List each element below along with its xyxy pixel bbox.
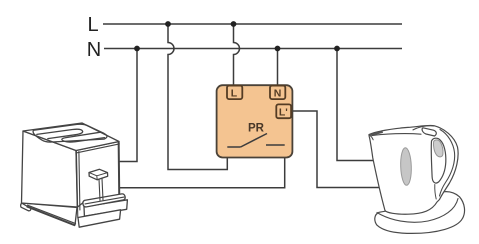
relay designator PR: [248, 123, 265, 135]
relay terminal N: [270, 86, 285, 100]
toaster base tray front edge hatch: [27, 205, 76, 225]
kettle spout beak: [369, 131, 383, 136]
toaster base band: [84, 200, 127, 216]
svg-text:PR: PR: [248, 123, 265, 135]
kettle lid top line: [413, 126, 434, 130]
kettle lid hinge cap: [422, 128, 436, 136]
svg-text:L: L: [87, 14, 98, 36]
kettle lid seam: [372, 134, 421, 136]
toaster slot divider tongue (left): [37, 129, 83, 138]
kettle handle column line: [435, 185, 436, 200]
junction dot on L bus at x=233.5: [231, 21, 237, 27]
toaster lever stem: [99, 179, 103, 201]
toaster body left face: [22, 131, 78, 207]
toaster right face rim line: [77, 144, 120, 153]
kettle base front lip: [377, 199, 458, 223]
toaster left foot: [21, 203, 31, 211]
wire: L bus to switch pivot (hops over N bus): [168, 24, 227, 170]
wire: N bus to relay terminal N: [277, 49, 279, 87]
junction dot on N bus at x=137: [134, 46, 140, 52]
toaster base bar: [83, 194, 125, 207]
wire L bus: [103, 23, 402, 25]
kettle spout underside: [369, 135, 373, 140]
junction dot on L bus at x=168: [165, 21, 171, 27]
junction dot on N bus at x=277.5: [275, 46, 281, 52]
relay switch blade: [241, 134, 267, 148]
relay switch contact (output side): [266, 144, 285, 146]
kettle water window: [400, 148, 412, 186]
svg-text:L: L: [231, 88, 238, 100]
relay switch contact (pivot side): [227, 146, 240, 148]
relay terminal L: [227, 86, 242, 100]
toaster slot outer ring: [33, 124, 107, 142]
svg-text:N: N: [87, 39, 101, 61]
kettle base platter: [375, 192, 465, 234]
wire: relay terminal L' to kettle: [291, 111, 379, 188]
junction dot on N bus at x=337: [334, 46, 340, 52]
toaster slot divider tongue (right): [62, 132, 105, 142]
kettle body with handle: [369, 125, 458, 214]
kettle: [369, 125, 465, 233]
wire N bus: [104, 48, 402, 50]
kettle handle inner edge: [440, 130, 455, 197]
toaster base tray left wedge: [22, 203, 78, 225]
node L label: [87, 14, 98, 36]
wire: N bus to toaster: [116, 49, 137, 162]
kettle grip hole: [431, 138, 446, 183]
svg-text:N: N: [274, 88, 282, 100]
toaster front corner edge: [76, 151, 80, 218]
wire: N bus to kettle: [337, 49, 376, 161]
node N label: [87, 39, 101, 61]
wire: L bus to relay terminal L (hops over N bus): [234, 24, 240, 86]
toaster base bar inner line: [85, 197, 124, 204]
toaster lever knob: [89, 169, 108, 180]
toaster bottom plate: [78, 210, 121, 227]
kettle grip hole shade: [433, 140, 443, 157]
svg-text:L': L': [279, 107, 288, 119]
toaster body top face: [23, 123, 119, 151]
priority relay PR body: [217, 85, 293, 157]
toaster body right face: [76, 142, 120, 208]
toaster right corner edge: [117, 142, 120, 197]
toaster: [21, 123, 128, 227]
relay terminal L': [276, 104, 291, 118]
wire: switch output to toaster: [116, 145, 285, 188]
